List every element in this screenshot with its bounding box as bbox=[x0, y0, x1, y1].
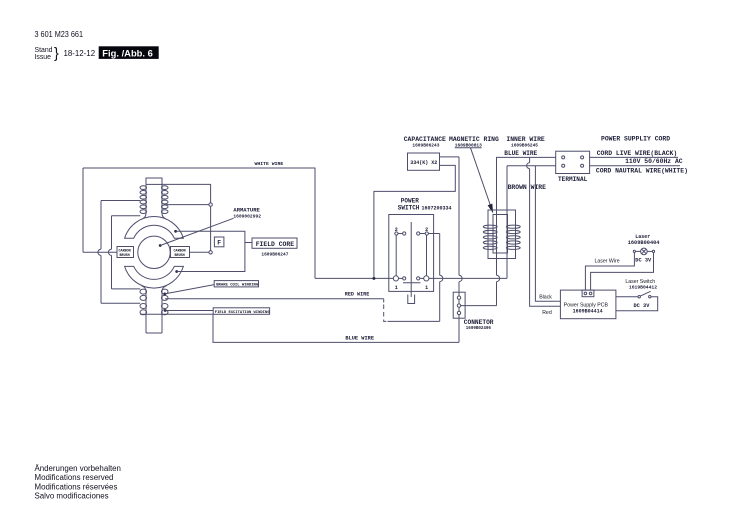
svg-text:INNER WIRE: INNER WIRE bbox=[506, 136, 545, 143]
armature mid tap wire bbox=[164, 204, 209, 206]
red supply wire bbox=[529, 157, 531, 162]
field core label box bbox=[252, 238, 297, 248]
magnetic ring part number bbox=[455, 142, 482, 148]
svg-text:Modifications réservées: Modifications réservées bbox=[35, 482, 118, 491]
switch output wire to brown junction bbox=[429, 277, 507, 279]
svg-text:110V 50/60Hz AC: 110V 50/60Hz AC bbox=[625, 158, 683, 165]
svg-text:Laser Wire: Laser Wire bbox=[595, 258, 620, 264]
cord live wire bbox=[590, 156, 678, 158]
laser wire lower bbox=[591, 253, 654, 291]
bottom field coil (field excitation winding) left loops bbox=[140, 289, 147, 315]
left brush lead wire bbox=[83, 251, 117, 253]
svg-text:Red: Red bbox=[542, 310, 552, 316]
cord neutral wire bbox=[590, 165, 680, 167]
svg-text:DC 3V: DC 3V bbox=[634, 303, 651, 309]
svg-text:1609B06247: 1609B06247 bbox=[261, 252, 288, 258]
armature pointer dot bbox=[159, 244, 162, 247]
magnetic ring outer box bbox=[488, 210, 516, 259]
white wire top run bbox=[83, 168, 315, 278]
right brush lead wire bbox=[190, 251, 209, 253]
svg-text:3 601 M23 661: 3 601 M23 661 bbox=[35, 29, 84, 39]
svg-text:Issue: Issue bbox=[35, 54, 52, 61]
field core pointer bracket top dot bbox=[174, 230, 177, 233]
svg-text:Black: Black bbox=[539, 295, 552, 301]
svg-text:Salvo modificaciones: Salvo modificaciones bbox=[35, 491, 109, 500]
switch contact bar bbox=[403, 282, 421, 284]
armature pointer line bbox=[160, 218, 233, 245]
svg-text:Änderungen vorbehalten: Änderungen vorbehalten bbox=[35, 464, 121, 473]
svg-text:FIELD CORE: FIELD CORE bbox=[256, 241, 295, 248]
red wire rise to switch with hop bbox=[440, 234, 443, 322]
open terminal circle upper bbox=[209, 203, 212, 206]
field winding tap wire B bottom bbox=[112, 288, 141, 290]
svg-text:POWER: POWER bbox=[401, 197, 419, 204]
junction node at capacitor tap bbox=[372, 277, 375, 280]
laser wire upper bbox=[585, 253, 634, 291]
brake coil winding leader line bbox=[165, 285, 214, 294]
top pole core bbox=[142, 178, 167, 219]
top pole shoe (field core upper arc) bbox=[125, 217, 184, 239]
top field coil right loops bbox=[161, 186, 168, 214]
svg-text:FIELD EXCITATION WINDING: FIELD EXCITATION WINDING bbox=[215, 311, 270, 315]
white wire run to switch bbox=[315, 277, 393, 279]
svg-text:1609B02406: 1609B02406 bbox=[466, 327, 492, 331]
svg-text:1609B04414: 1609B04414 bbox=[573, 309, 603, 315]
capacitor C1 box bbox=[408, 153, 440, 170]
vertical between connector circles bbox=[210, 206, 212, 250]
svg-text:334(K) X2: 334(K) X2 bbox=[410, 160, 437, 166]
svg-text:RED WIRE: RED WIRE bbox=[345, 292, 369, 298]
F box bbox=[214, 237, 224, 247]
svg-text:1607200334: 1607200334 bbox=[422, 205, 452, 211]
switch actuator plug bracket bbox=[408, 295, 415, 304]
switch top terminals bbox=[395, 232, 429, 235]
open terminal circle lower bbox=[209, 251, 212, 254]
magnetic ring left loops bbox=[483, 225, 497, 249]
capacitor top lead bbox=[440, 156, 460, 158]
switch pole link right bbox=[426, 235, 428, 276]
svg-text:BRUSH: BRUSH bbox=[175, 254, 185, 258]
svg-text:1: 1 bbox=[425, 285, 428, 291]
armature circle bbox=[138, 236, 170, 268]
capacitor bottom lead bbox=[374, 165, 455, 278]
brown inner wire with hop at black tap bbox=[507, 166, 556, 279]
brake coil winding label box bbox=[214, 281, 259, 288]
svg-text:POWER SUPPLIY CORD: POWER SUPPLIY CORD bbox=[601, 136, 670, 143]
brake coil winding pointer dot bbox=[163, 293, 166, 296]
svg-text:1619B04412: 1619B04412 bbox=[629, 285, 657, 291]
red wire from brake coil bbox=[165, 298, 384, 300]
magnetic ring arrowhead bbox=[488, 204, 494, 214]
bottom pole shoe (field core lower arc) bbox=[125, 266, 184, 288]
svg-text:MAGNETIC RING: MAGNETIC RING bbox=[449, 136, 499, 143]
bottom field coil right loops bbox=[161, 289, 168, 315]
connector middle link wire bbox=[459, 305, 497, 307]
svg-text:CARBON: CARBON bbox=[119, 249, 131, 253]
magnetic ring core tube bbox=[493, 215, 508, 254]
switch pole link left bbox=[395, 235, 397, 276]
bottom pole core bbox=[142, 286, 167, 333]
blue inner wire vertical with hop bbox=[497, 157, 556, 305]
field winding tap wire A bottom bbox=[101, 302, 140, 304]
svg-text:CONNETOR: CONNETOR bbox=[464, 319, 494, 326]
svg-text:CARBON: CARBON bbox=[174, 249, 186, 253]
svg-text:BLUE WIRE: BLUE WIRE bbox=[504, 150, 537, 157]
field core pointer bracket bottom dot bbox=[175, 270, 178, 273]
magnetic ring right loops bbox=[506, 225, 520, 249]
field excitation winding lead wire bbox=[165, 310, 213, 312]
laser lamp symbol bbox=[633, 248, 654, 255]
svg-text:BRAKE COIL WINDING: BRAKE COIL WINDING bbox=[216, 284, 259, 288]
svg-text:1: 1 bbox=[395, 285, 398, 291]
top field coil left loops bbox=[140, 186, 147, 214]
svg-text:SWITCH: SWITCH bbox=[398, 205, 420, 212]
magnetic ring leader line bbox=[471, 148, 491, 207]
carbon brush right bbox=[171, 247, 190, 258]
svg-text:CORD LIVE WIRE(BLACK): CORD LIVE WIRE(BLACK) bbox=[597, 150, 678, 157]
svg-text:1609B06243: 1609B06243 bbox=[412, 142, 439, 148]
laser switch symbol bbox=[638, 291, 651, 298]
laser switch return wire bbox=[616, 297, 658, 311]
field excitation winding label box bbox=[213, 308, 270, 315]
black supply wire bbox=[535, 166, 560, 302]
svg-text:DC 3V: DC 3V bbox=[635, 258, 652, 264]
svg-text:Modifications reserved: Modifications reserved bbox=[35, 473, 114, 482]
power supply pcb box bbox=[560, 290, 616, 319]
armature top tap wire bbox=[162, 184, 211, 203]
field core pointer bracket bbox=[176, 231, 245, 271]
svg-text:BRUSH: BRUSH bbox=[120, 254, 130, 258]
blue wire bottom run bbox=[140, 314, 459, 342]
svg-text:Laser Switch: Laser Switch bbox=[625, 279, 655, 285]
terminal block bbox=[556, 151, 590, 173]
switch bottom terminals bbox=[393, 276, 429, 281]
red wire drop solid part bbox=[383, 299, 385, 303]
connector box bbox=[453, 292, 465, 318]
laser switch feed wire bbox=[616, 296, 638, 298]
carbon brush left bbox=[117, 247, 134, 258]
field winding tap wire B top bbox=[112, 215, 141, 217]
white wire left drop to brush bbox=[82, 168, 84, 252]
svg-text:CORD NAUTRAL WIRE(WHITE): CORD NAUTRAL WIRE(WHITE) bbox=[596, 167, 688, 174]
svg-text:Power Supply PCB: Power Supply PCB bbox=[564, 302, 609, 308]
power switch box bbox=[389, 215, 434, 292]
svg-text:1609B00404: 1609B00404 bbox=[628, 240, 661, 246]
svg-text:CAPACITANCE: CAPACITANCE bbox=[404, 136, 446, 143]
svg-text:TERMINAL: TERMINAL bbox=[558, 176, 588, 183]
stand/issue date block bbox=[35, 46, 96, 62]
fig label box bbox=[99, 46, 159, 59]
svg-text:1609B06245: 1609B06245 bbox=[511, 142, 538, 148]
svg-text:1609002992: 1609002992 bbox=[233, 213, 261, 219]
red wire dashed section bbox=[384, 305, 388, 322]
field excitation winding pointer dot bbox=[164, 309, 167, 312]
switch actuator line bbox=[410, 222, 412, 297]
field core link wire bbox=[245, 242, 252, 244]
field winding tap wire A top bbox=[101, 200, 140, 202]
pcb pin header bbox=[582, 290, 594, 297]
svg-text:BROWN WIRE: BROWN WIRE bbox=[508, 184, 547, 191]
svg-text:ARMATURE: ARMATURE bbox=[233, 207, 260, 214]
modifications text block bbox=[35, 464, 121, 500]
red wire stub to switch terminal bbox=[428, 233, 439, 235]
svg-text:WHITE WIRE: WHITE WIRE bbox=[255, 161, 284, 167]
svg-text:Stand: Stand bbox=[35, 47, 53, 54]
field winding tap wire A vertical with hop bbox=[98, 201, 101, 304]
svg-text:}: } bbox=[54, 46, 59, 62]
connector pins bbox=[457, 296, 460, 315]
field winding tap wire B vertical with hop bbox=[108, 216, 111, 289]
svg-text:Fig. /Abb. 6: Fig. /Abb. 6 bbox=[102, 47, 153, 58]
svg-text:BLUE WIRE: BLUE WIRE bbox=[345, 336, 374, 342]
svg-text:F: F bbox=[217, 240, 221, 247]
red wire bottom run bbox=[388, 320, 440, 322]
connector vertical wire with hop bbox=[459, 157, 462, 343]
svg-text:18-12-12: 18-12-12 bbox=[64, 49, 96, 58]
